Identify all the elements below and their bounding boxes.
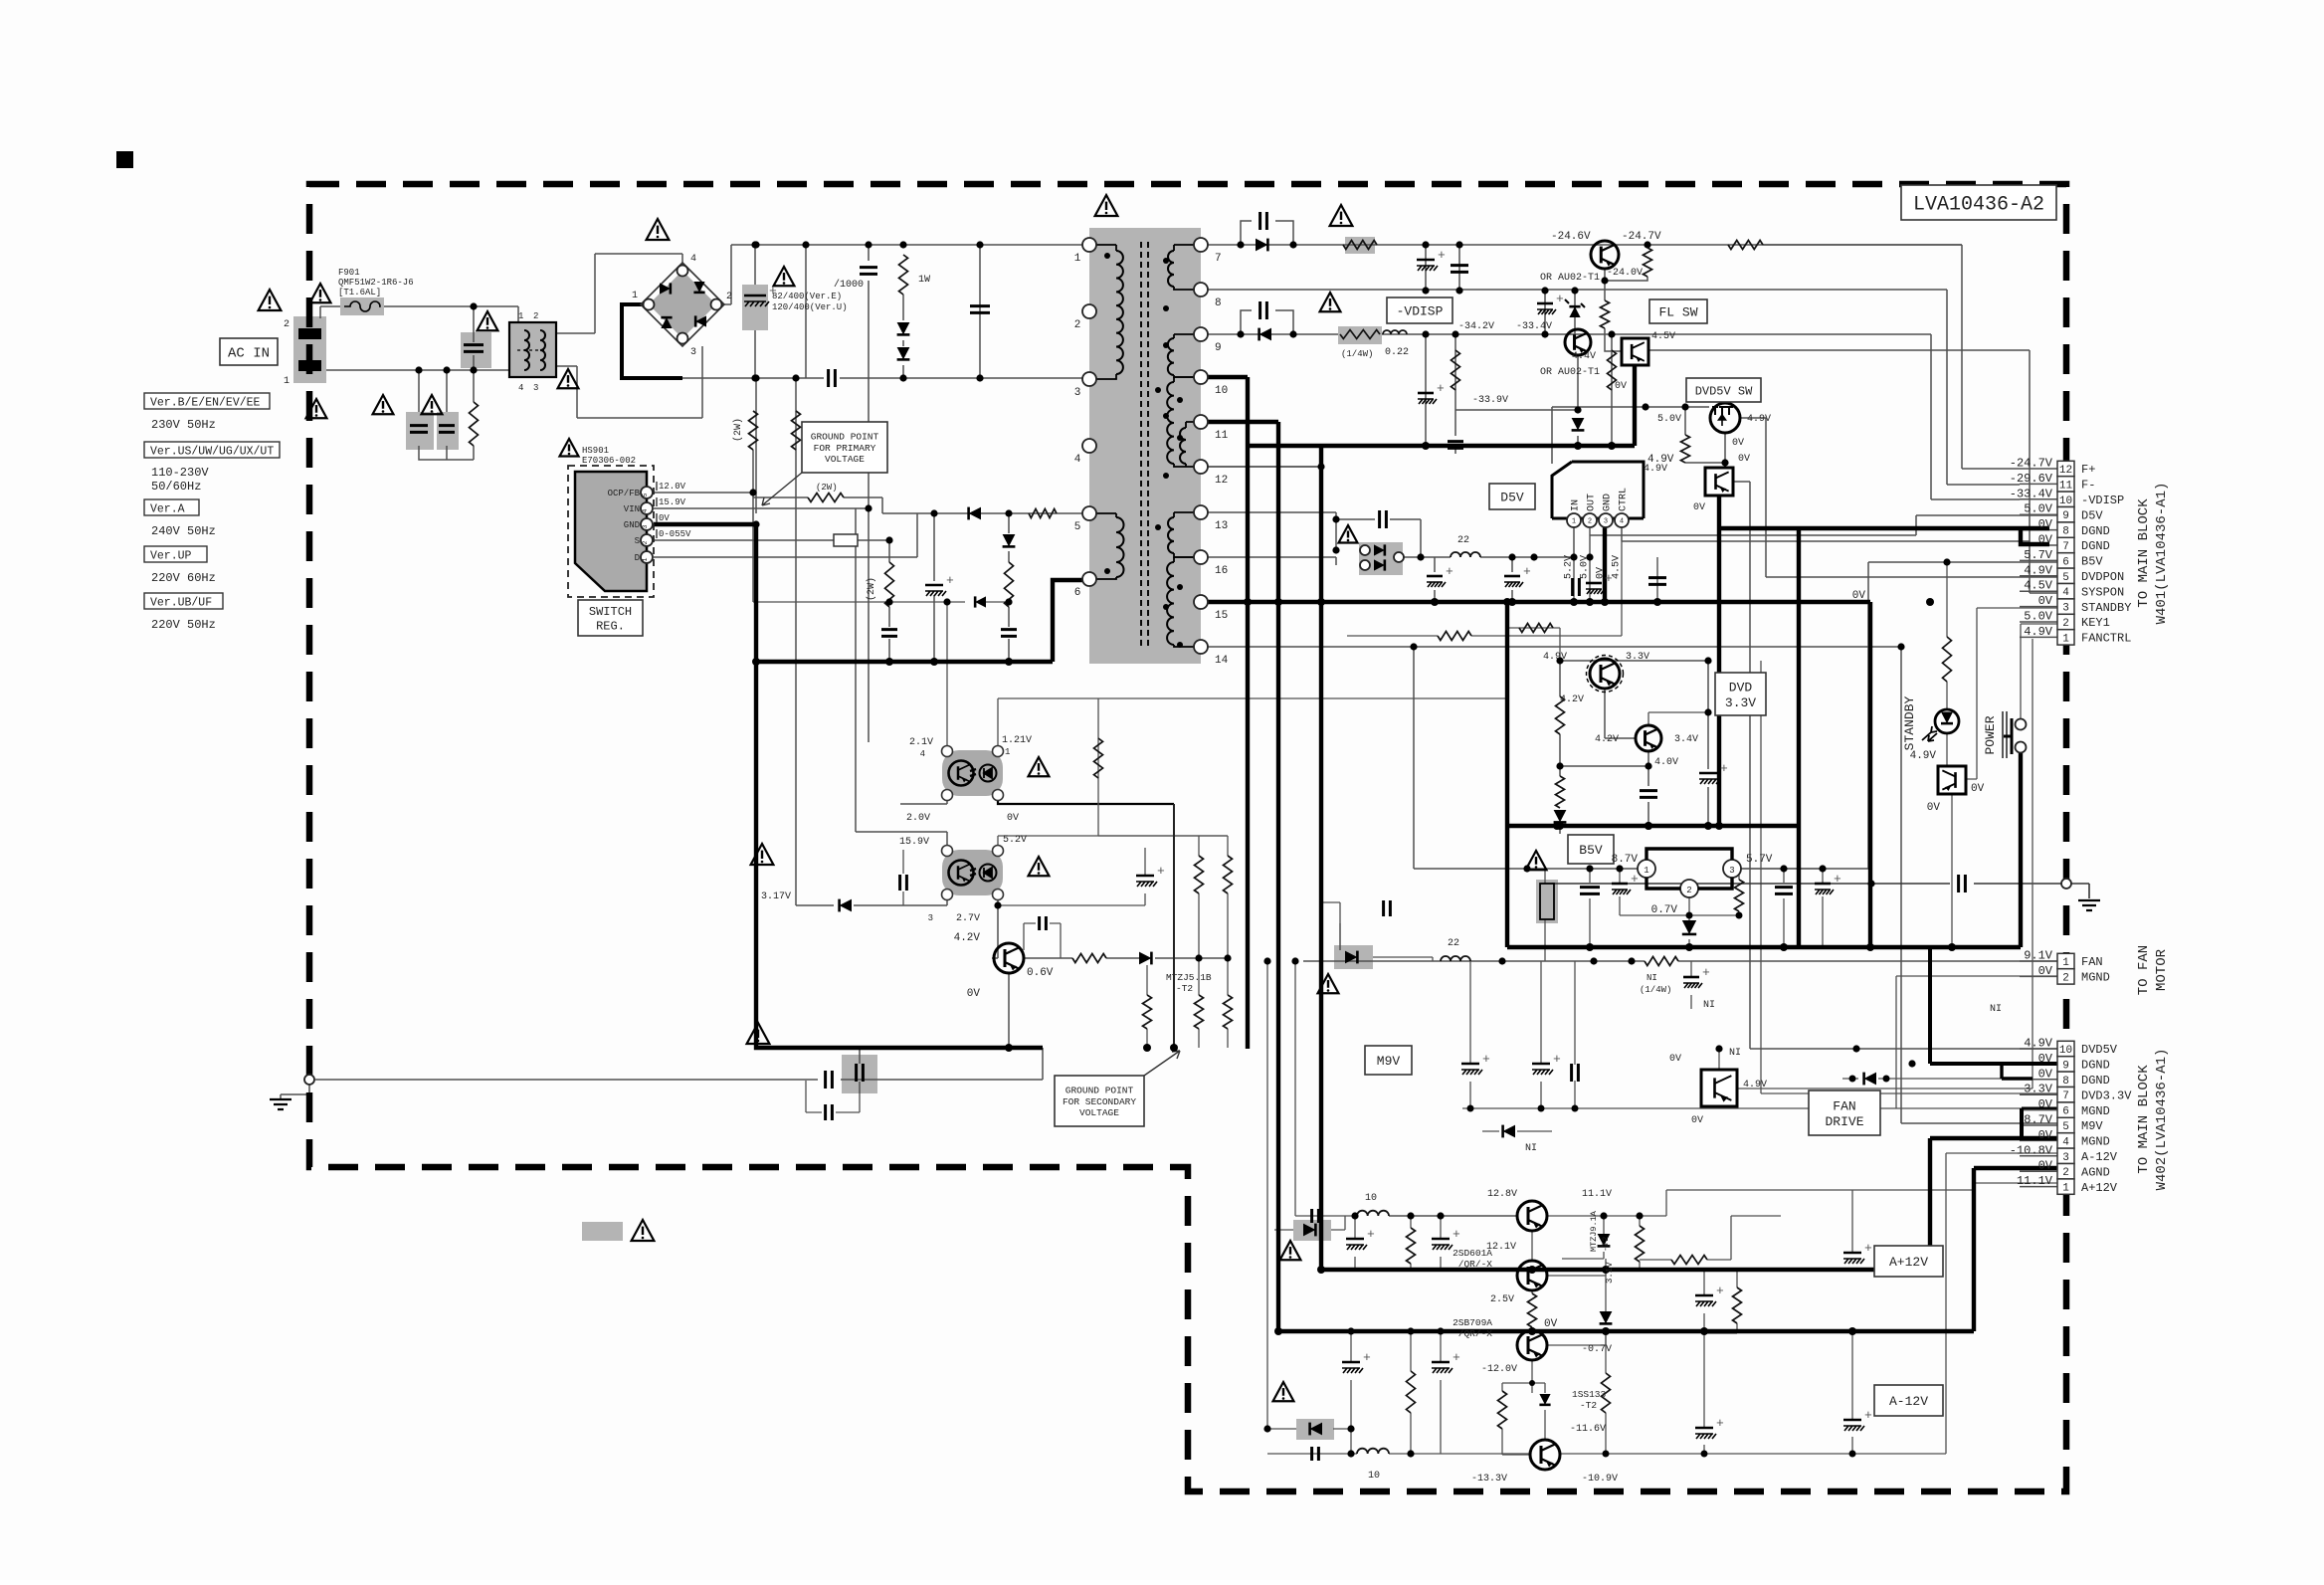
- svg-text:DVD5V: DVD5V: [2081, 1043, 2118, 1057]
- svg-text:IN: IN: [1571, 499, 1582, 511]
- svg-text:HS901: HS901: [582, 446, 609, 456]
- svg-text:+: +: [1446, 564, 1453, 579]
- svg-text:Ver.US/UW/UG/UX/UT: Ver.US/UW/UG/UX/UT: [150, 446, 274, 459]
- svg-text:4.5V: 4.5V: [2024, 579, 2053, 593]
- svg-text:A+12V: A+12V: [1889, 1255, 1928, 1270]
- svg-text:A-12V: A-12V: [2081, 1150, 2118, 1164]
- svg-text:2: 2: [533, 311, 538, 321]
- svg-text:+: +: [1631, 872, 1639, 887]
- svg-text:[T1.6AL]: [T1.6AL]: [338, 288, 381, 297]
- svg-text:FOR PRIMARY: FOR PRIMARY: [814, 443, 876, 454]
- svg-text:4: 4: [642, 508, 649, 512]
- svg-text:14: 14: [1215, 655, 1229, 667]
- svg-text:10: 10: [2059, 1045, 2072, 1057]
- svg-text:DVDPON: DVDPON: [2081, 570, 2124, 584]
- svg-text:4.2V: 4.2V: [1595, 734, 1619, 745]
- svg-text:+: +: [1834, 872, 1841, 887]
- svg-text:3.4V: 3.4V: [1674, 734, 1698, 745]
- svg-text:D: D: [635, 553, 640, 563]
- svg-text:1.21V: 1.21V: [1002, 735, 1032, 746]
- svg-text:0V: 0V: [2038, 1097, 2053, 1111]
- svg-text:A-12V: A-12V: [1889, 1394, 1928, 1409]
- svg-text:9: 9: [2062, 510, 2069, 522]
- svg-text:0V: 0V: [967, 988, 981, 1000]
- svg-text:-VDISP: -VDISP: [2081, 494, 2124, 507]
- svg-text:4.4V: 4.4V: [1572, 351, 1596, 362]
- svg-text:4: 4: [690, 254, 696, 265]
- svg-text:+: +: [1157, 864, 1165, 879]
- svg-text:M9V: M9V: [2081, 1119, 2103, 1133]
- svg-text:4.9V: 4.9V: [1910, 750, 1937, 762]
- svg-text:3.17V: 3.17V: [761, 892, 791, 902]
- svg-text:-11.6V: -11.6V: [1570, 1424, 1606, 1435]
- svg-text:MOTOR: MOTOR: [2154, 948, 2170, 991]
- svg-text:10: 10: [1368, 1471, 1380, 1482]
- svg-text:GROUND POINT: GROUND POINT: [1065, 1086, 1134, 1096]
- svg-text:5.7V: 5.7V: [2024, 548, 2053, 562]
- svg-text:5.0V: 5.0V: [1580, 555, 1591, 579]
- svg-text:3.3V: 3.3V: [1725, 695, 1756, 710]
- svg-text:GROUND POINT: GROUND POINT: [811, 432, 879, 443]
- svg-text:DGND: DGND: [2081, 524, 2110, 538]
- svg-text:AC IN: AC IN: [228, 346, 270, 362]
- svg-text:82/400(Ver.E): 82/400(Ver.E): [772, 292, 842, 301]
- svg-text:3: 3: [1074, 387, 1081, 399]
- svg-text:+: +: [1437, 381, 1445, 396]
- svg-text:5: 5: [1074, 521, 1081, 533]
- svg-text:5: 5: [642, 493, 649, 496]
- svg-text:7: 7: [2062, 541, 2069, 553]
- svg-text:DVD: DVD: [1729, 681, 1753, 695]
- svg-text:3: 3: [1604, 518, 1608, 526]
- svg-text:22: 22: [1457, 535, 1469, 546]
- svg-text:3.3V: 3.3V: [2024, 1083, 2053, 1096]
- svg-text:12.0V: 12.0V: [659, 482, 686, 492]
- svg-text:F901: F901: [338, 268, 360, 278]
- svg-text:2: 2: [1686, 886, 1691, 895]
- svg-text:0V: 0V: [1691, 1115, 1703, 1126]
- svg-text:-T2: -T2: [1176, 983, 1193, 994]
- svg-text:SWITCH: SWITCH: [589, 605, 632, 619]
- svg-text:AGND: AGND: [2081, 1165, 2110, 1179]
- svg-text:+: +: [1482, 1052, 1490, 1067]
- svg-text:+: +: [1605, 571, 1613, 586]
- svg-text:0V: 0V: [1693, 502, 1705, 513]
- svg-text:1: 1: [642, 557, 649, 561]
- svg-text:10: 10: [1215, 385, 1228, 397]
- svg-text:2: 2: [2062, 972, 2069, 984]
- svg-text:2: 2: [2062, 618, 2069, 630]
- svg-text:FL SW: FL SW: [1658, 305, 1697, 320]
- svg-text:-24.6V: -24.6V: [1551, 231, 1591, 243]
- svg-text:B5V: B5V: [1579, 843, 1603, 858]
- svg-text:F-: F-: [2081, 479, 2095, 493]
- svg-text:S: S: [635, 536, 640, 546]
- svg-text:4: 4: [518, 383, 523, 393]
- svg-text:3: 3: [533, 383, 538, 393]
- svg-text:9: 9: [2062, 1060, 2069, 1072]
- svg-text:0V: 0V: [2038, 1159, 2053, 1173]
- svg-text:3: 3: [642, 524, 649, 528]
- svg-text:MTZJ9.1A: MTZJ9.1A: [1589, 1210, 1599, 1252]
- svg-text:0V: 0V: [1669, 1054, 1681, 1065]
- svg-text:-33.4V: -33.4V: [2010, 487, 2053, 500]
- svg-text:10: 10: [1365, 1193, 1377, 1204]
- svg-text:4: 4: [2062, 1136, 2069, 1148]
- svg-text:-33.4V: -33.4V: [1516, 321, 1552, 332]
- svg-text:1: 1: [1572, 518, 1576, 526]
- svg-text:3: 3: [690, 347, 696, 358]
- svg-text:OUT: OUT: [1587, 494, 1598, 511]
- svg-text:0V: 0V: [2038, 1052, 2053, 1066]
- svg-text:(1/4W): (1/4W): [1341, 349, 1373, 359]
- svg-text:-T2: -T2: [1601, 1237, 1611, 1252]
- svg-text:Ver.UP: Ver.UP: [150, 550, 192, 563]
- svg-text:+: +: [1556, 292, 1564, 306]
- svg-text:A+12V: A+12V: [2081, 1181, 2118, 1195]
- svg-text:+: +: [1367, 1227, 1375, 1242]
- svg-text:4.5V: 4.5V: [1612, 555, 1623, 579]
- svg-text:KEY1: KEY1: [2081, 616, 2110, 630]
- svg-text:(2W): (2W): [732, 418, 744, 442]
- svg-text:OR AU02-T1: OR AU02-T1: [1540, 273, 1600, 284]
- svg-text:4.9V: 4.9V: [1644, 464, 1667, 475]
- svg-text:1SS133: 1SS133: [1572, 1389, 1607, 1400]
- svg-text:DGND: DGND: [2081, 1074, 2110, 1088]
- svg-text:(2W): (2W): [816, 483, 838, 493]
- svg-text:11.1V: 11.1V: [1582, 1189, 1612, 1200]
- svg-text:1: 1: [284, 376, 290, 387]
- svg-text:12.8V: 12.8V: [1487, 1189, 1517, 1200]
- svg-text:0V: 0V: [1615, 381, 1627, 392]
- svg-text:8: 8: [1215, 297, 1222, 309]
- svg-text:4: 4: [1620, 518, 1624, 526]
- svg-text:0V: 0V: [1927, 802, 1941, 814]
- svg-text:5.0V: 5.0V: [1657, 414, 1681, 425]
- svg-text:-33.9V: -33.9V: [1472, 395, 1508, 406]
- svg-text:+: +: [1438, 248, 1446, 263]
- svg-text:0V: 0V: [1852, 590, 1866, 602]
- svg-text:2.7V: 2.7V: [956, 913, 980, 924]
- svg-text:Ver.UB/UF: Ver.UB/UF: [150, 597, 212, 610]
- svg-text:NI: NI: [1703, 1000, 1715, 1011]
- svg-text:4.5V: 4.5V: [1651, 331, 1675, 342]
- svg-text:3.3V: 3.3V: [1626, 652, 1649, 663]
- svg-text:NI: NI: [1646, 973, 1657, 983]
- svg-text:1: 1: [2062, 1183, 2069, 1195]
- svg-text:GND: GND: [1603, 494, 1614, 511]
- svg-text:-24.7V: -24.7V: [2010, 457, 2053, 471]
- svg-text:0.22: 0.22: [1385, 347, 1409, 358]
- svg-text:FAN: FAN: [2081, 955, 2103, 969]
- svg-text:F+: F+: [2081, 463, 2095, 477]
- svg-text:POWER: POWER: [1983, 715, 1998, 754]
- svg-text:11: 11: [1215, 430, 1229, 442]
- svg-text:220V 60Hz: 220V 60Hz: [151, 571, 216, 585]
- svg-text:+: +: [1702, 965, 1710, 980]
- svg-text:STANDBY: STANDBY: [2081, 601, 2131, 615]
- svg-text:10: 10: [2059, 495, 2072, 507]
- svg-text:3: 3: [2062, 1152, 2069, 1164]
- svg-text:NI: NI: [1729, 1048, 1741, 1059]
- svg-text:VIN: VIN: [624, 504, 640, 514]
- svg-text:5: 5: [2062, 1121, 2069, 1133]
- svg-text:0V: 0V: [1732, 438, 1744, 449]
- svg-text:12.1V: 12.1V: [1486, 1242, 1516, 1253]
- svg-text:1: 1: [518, 311, 523, 321]
- svg-text:MGND: MGND: [2081, 1104, 2110, 1118]
- svg-text:MTZJ5.1B: MTZJ5.1B: [1166, 972, 1212, 983]
- svg-text:+: +: [1720, 761, 1728, 776]
- svg-text:+: +: [1864, 1408, 1872, 1423]
- svg-text:11.1V: 11.1V: [2017, 1174, 2053, 1188]
- svg-text:6: 6: [2062, 556, 2069, 568]
- svg-text:16: 16: [1215, 565, 1228, 577]
- svg-text:FAN: FAN: [1833, 1099, 1855, 1114]
- svg-text:0V: 0V: [2038, 1128, 2053, 1142]
- svg-text:5.7V: 5.7V: [1746, 854, 1773, 866]
- svg-text:0-055V: 0-055V: [659, 529, 691, 539]
- svg-text:15: 15: [1215, 610, 1228, 622]
- svg-text:3: 3: [928, 913, 933, 923]
- svg-text:2SB709A: 2SB709A: [1452, 1317, 1492, 1328]
- svg-text:8: 8: [2062, 1076, 2069, 1088]
- svg-text:50/60Hz: 50/60Hz: [151, 480, 201, 494]
- svg-text:MGND: MGND: [2081, 971, 2110, 985]
- svg-text:(1/4W): (1/4W): [1640, 985, 1671, 995]
- svg-text:5.2V: 5.2V: [1564, 555, 1575, 579]
- svg-text:1: 1: [1074, 253, 1081, 265]
- svg-text:+: +: [1553, 1052, 1561, 1067]
- svg-text:-13.3V: -13.3V: [1471, 1474, 1507, 1485]
- svg-text:D5V: D5V: [1500, 491, 1524, 505]
- svg-text:Ver.A: Ver.A: [150, 503, 185, 516]
- svg-text:(2W): (2W): [866, 577, 877, 601]
- svg-text:0V: 0V: [1007, 813, 1019, 824]
- svg-text:1: 1: [632, 291, 638, 301]
- svg-text:-29.6V: -29.6V: [2010, 472, 2053, 486]
- svg-text:DRIVE: DRIVE: [1825, 1114, 1863, 1129]
- svg-text:15.9V: 15.9V: [899, 837, 929, 848]
- svg-text:FOR SECONDARY: FOR SECONDARY: [1063, 1096, 1136, 1107]
- svg-text:2: 2: [1588, 518, 1592, 526]
- svg-text:QMF51W2-1R6-J6: QMF51W2-1R6-J6: [338, 278, 414, 288]
- svg-text:4.0V: 4.0V: [1654, 757, 1678, 768]
- svg-text:1: 1: [1005, 747, 1010, 757]
- svg-text:-T2: -T2: [1580, 1400, 1597, 1411]
- svg-text:DVD3.3V: DVD3.3V: [2081, 1089, 2132, 1102]
- svg-text:0V: 0V: [2038, 964, 2053, 978]
- svg-text:5.0V: 5.0V: [2024, 502, 2053, 516]
- svg-text:-0.7V: -0.7V: [1582, 1344, 1612, 1355]
- svg-text:4: 4: [1074, 454, 1081, 466]
- svg-text:TO MAIN BLOCK: TO MAIN BLOCK: [2136, 498, 2152, 608]
- svg-text:-10.8V: -10.8V: [2010, 1143, 2053, 1157]
- svg-text:8: 8: [2062, 526, 2069, 538]
- svg-text:1: 1: [1644, 866, 1648, 876]
- svg-text:1W: 1W: [918, 275, 930, 286]
- svg-text:4.9V: 4.9V: [2024, 1037, 2053, 1051]
- svg-text:+: +: [1864, 1241, 1872, 1256]
- svg-text:VOLTAGE: VOLTAGE: [1079, 1107, 1119, 1118]
- svg-text:0V: 0V: [1544, 1318, 1558, 1330]
- svg-text:OR AU02-T1: OR AU02-T1: [1540, 367, 1600, 378]
- svg-text:4: 4: [920, 749, 925, 759]
- svg-text:2: 2: [1074, 319, 1081, 331]
- svg-text:3: 3: [1729, 866, 1734, 876]
- svg-text:0V: 0V: [2038, 594, 2053, 608]
- svg-text:-12.0V: -12.0V: [1481, 1364, 1517, 1375]
- svg-text:22: 22: [1448, 938, 1459, 949]
- svg-text:GND: GND: [624, 520, 640, 530]
- svg-text:4.9V: 4.9V: [2024, 563, 2053, 577]
- svg-text:110-230V: 110-230V: [151, 466, 209, 480]
- svg-text:8.7V: 8.7V: [1612, 854, 1639, 866]
- svg-text:DGND: DGND: [2081, 1059, 2110, 1073]
- svg-text:0V: 0V: [2038, 1067, 2053, 1081]
- svg-text:DVD5V SW: DVD5V SW: [1695, 384, 1753, 398]
- svg-text:9: 9: [1215, 342, 1222, 354]
- svg-text:-10.9V: -10.9V: [1582, 1474, 1618, 1485]
- svg-text:220V 50Hz: 220V 50Hz: [151, 618, 216, 632]
- svg-text:7: 7: [2062, 1090, 2069, 1102]
- svg-text:13: 13: [1215, 520, 1228, 532]
- svg-text:MGND: MGND: [2081, 1135, 2110, 1149]
- svg-text:CTRL: CTRL: [1619, 488, 1630, 511]
- svg-text:4.9V: 4.9V: [2024, 625, 2053, 639]
- svg-text:D5V: D5V: [2081, 508, 2103, 522]
- svg-text:TO FAN: TO FAN: [2136, 945, 2152, 995]
- svg-text:2.5V: 2.5V: [1490, 1294, 1514, 1305]
- svg-text:12: 12: [2059, 465, 2072, 477]
- svg-text:7: 7: [1215, 253, 1222, 265]
- svg-text:0V: 0V: [659, 513, 670, 523]
- svg-text:DGND: DGND: [2081, 539, 2110, 553]
- svg-text:4: 4: [2062, 587, 2069, 599]
- svg-text:1: 1: [2062, 633, 2069, 645]
- svg-text:8.7V: 8.7V: [2024, 1113, 2053, 1127]
- svg-text:+: +: [1716, 1284, 1724, 1298]
- svg-text:/QR/-X: /QR/-X: [1458, 1259, 1493, 1270]
- svg-text:5.0V: 5.0V: [2024, 610, 2053, 624]
- svg-text:0.6V: 0.6V: [1027, 967, 1054, 979]
- svg-text:1: 1: [2062, 957, 2069, 969]
- svg-text:-24.7V: -24.7V: [1622, 231, 1661, 243]
- svg-text:FANCTRL: FANCTRL: [2081, 632, 2131, 646]
- svg-text:-34.2V: -34.2V: [1458, 321, 1494, 332]
- svg-text:OCP/FB: OCP/FB: [608, 489, 641, 498]
- svg-text:TO MAIN BLOCK: TO MAIN BLOCK: [2136, 1065, 2152, 1174]
- svg-text:STANDBY: STANDBY: [1902, 695, 1917, 750]
- svg-text:B5V: B5V: [2081, 555, 2103, 569]
- svg-text:3: 3: [2062, 603, 2069, 615]
- svg-text:NI: NI: [1525, 1143, 1537, 1154]
- svg-text:2.0V: 2.0V: [906, 813, 930, 824]
- svg-text:4.9V: 4.9V: [1543, 652, 1567, 663]
- svg-text:4.9V: 4.9V: [1747, 414, 1771, 425]
- svg-text:2: 2: [2062, 1167, 2069, 1179]
- svg-text:5.2V: 5.2V: [1003, 835, 1027, 846]
- svg-text:0V: 0V: [1971, 783, 1985, 795]
- svg-text:4.9V: 4.9V: [1743, 1080, 1767, 1090]
- svg-text:SYSPON: SYSPON: [2081, 585, 2124, 599]
- svg-text:2: 2: [726, 292, 732, 302]
- svg-text:+: +: [1523, 564, 1531, 579]
- svg-text:230V 50Hz: 230V 50Hz: [151, 418, 216, 432]
- svg-text:6: 6: [2062, 1106, 2069, 1118]
- svg-text:+: +: [1452, 1227, 1460, 1242]
- svg-text:2.1V: 2.1V: [909, 737, 933, 748]
- svg-text:120/400(Ver.U): 120/400(Ver.U): [772, 302, 848, 312]
- svg-text:9.1V: 9.1V: [2024, 949, 2053, 963]
- svg-text:0.7V: 0.7V: [1651, 904, 1678, 916]
- svg-text:4.2V: 4.2V: [1560, 694, 1584, 705]
- svg-text:0V: 0V: [2038, 517, 2053, 531]
- svg-text:+: +: [946, 573, 954, 588]
- svg-text:240V 50Hz: 240V 50Hz: [151, 524, 216, 538]
- svg-text:-VDISP: -VDISP: [1397, 304, 1444, 319]
- svg-text:3.1V: 3.1V: [1605, 1262, 1615, 1284]
- svg-text:2: 2: [284, 319, 290, 330]
- svg-text:0V: 0V: [2038, 533, 2053, 547]
- svg-text:/1000: /1000: [834, 279, 864, 291]
- svg-text:+: +: [1363, 1350, 1371, 1365]
- svg-text:Ver.B/E/EN/EV/EE: Ver.B/E/EN/EV/EE: [150, 397, 261, 410]
- svg-text:E70306-002: E70306-002: [582, 456, 636, 466]
- svg-text:+: +: [1716, 1416, 1724, 1431]
- svg-text:2: 2: [642, 540, 649, 544]
- svg-text:6: 6: [1074, 587, 1081, 599]
- svg-text:W402(LVA10436-A1): W402(LVA10436-A1): [2154, 1049, 2170, 1191]
- svg-text:M9V: M9V: [1377, 1054, 1401, 1069]
- svg-text:VOLTAGE: VOLTAGE: [825, 454, 865, 465]
- svg-text:12: 12: [1215, 475, 1228, 487]
- svg-text:5: 5: [2062, 572, 2069, 584]
- svg-text:-24.0V: -24.0V: [1607, 268, 1643, 279]
- svg-text:REG.: REG.: [596, 619, 625, 633]
- svg-text:W401(LVA10436-A1): W401(LVA10436-A1): [2154, 483, 2170, 625]
- svg-text:/QR/-X: /QR/-X: [1458, 1328, 1493, 1339]
- svg-text:15.9V: 15.9V: [659, 497, 686, 507]
- svg-text:+: +: [1452, 1350, 1460, 1365]
- svg-text:4.2V: 4.2V: [954, 932, 981, 944]
- svg-text:NI: NI: [1990, 1004, 2002, 1015]
- svg-text:LVA10436-A2: LVA10436-A2: [1913, 194, 2044, 217]
- svg-text:0V: 0V: [1738, 454, 1750, 465]
- svg-text:11: 11: [2059, 480, 2073, 492]
